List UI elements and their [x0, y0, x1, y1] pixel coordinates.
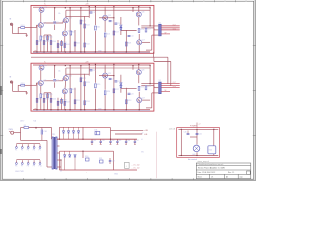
resistor R218 [126, 100, 132, 104]
transistor Q16 [136, 12, 144, 17]
diode D33 [77, 131, 79, 133]
svg-text:C38: C38 [112, 161, 115, 163]
connector pin P2 [21, 144, 23, 151]
resistor R31 [99, 158, 103, 163]
resistor R216 [104, 91, 110, 95]
svg-text:Date: 12.04.2004 19:52: Date: 12.04.2004 19:52 [198, 171, 216, 174]
junction dots 2 [36, 64, 150, 110]
resistor R110 [70, 31, 76, 35]
svg-text:R115: R115 [97, 26, 101, 28]
aux circuit enclosure box [177, 128, 220, 158]
title block logo box [247, 171, 251, 174]
resistor R202 [36, 98, 42, 102]
V+ aux rail net 2 [66, 67, 150, 69]
wire rows 1 [44, 16, 158, 42]
capacitor C14 [128, 35, 134, 37]
svg-text:C25: C25 [93, 70, 96, 72]
diode D11 [120, 25, 122, 27]
wire first stage link 1 [43, 21, 63, 24]
resistor R212 [80, 78, 86, 82]
resistor R118 [126, 42, 132, 46]
wire column c 1 [75, 7, 95, 52]
aux wire columns [181, 129, 214, 155]
wire diode stubs upper [64, 127, 79, 139]
svg-text:R209: R209 [66, 102, 70, 104]
svg-text:5: 5 [97, 1, 98, 3]
svg-text:P3: P3 [27, 150, 29, 152]
svg-text:R116: R116 [106, 33, 110, 35]
net labels 1 [34, 4, 103, 53]
capacitor C13 [115, 23, 121, 25]
svg-text:R204: R204 [45, 99, 49, 101]
diode D22 [120, 86, 122, 88]
wire ground bus between channels [31, 52, 168, 84]
svg-text:Q17: Q17 [142, 40, 145, 42]
resistor R205 [47, 94, 53, 98]
wire column a 2 [37, 70, 51, 110]
wire link between channels right side [154, 57, 171, 86]
ground bus 1 [33, 52, 150, 54]
connector SL2 pin header [16, 159, 40, 161]
resistor R213 [84, 82, 90, 86]
wire output stage 2 [139, 64, 150, 109]
svg-text:Q25: Q25 [108, 73, 111, 75]
svg-text:→ LS– 4Ω: → LS– 4Ω [131, 167, 140, 169]
connector SL1 pin header [16, 143, 40, 145]
svg-text:P7: P7 [21, 166, 23, 168]
capacitor C11 [53, 22, 59, 24]
resistor R109 [64, 44, 70, 48]
transistor Q13 [63, 18, 71, 23]
svg-text:+UB -UB: +UB -UB [169, 128, 175, 130]
svg-text:C32: C32 [93, 140, 96, 142]
svg-text:C11: C11 [56, 22, 59, 24]
svg-text:R119: R119 [147, 28, 151, 30]
input jack X11 [10, 19, 13, 26]
resistor R117 [113, 31, 119, 35]
svg-text:R112: R112 [82, 20, 86, 22]
svg-text:R212: R212 [82, 78, 86, 80]
V+ rail net 1 [33, 6, 150, 8]
V- rail net 1 [33, 51, 150, 53]
wire column b 1 [55, 8, 70, 52]
capacitor C22 [109, 78, 115, 80]
diode D12 [120, 28, 122, 30]
svg-text:C15: C15 [93, 12, 96, 14]
svg-text:R202: R202 [38, 99, 42, 101]
frame divider line [155, 132, 157, 179]
svg-text:R104: R104 [45, 41, 49, 43]
transistor Q24 [62, 89, 70, 94]
rectifier bridge wires upper [60, 127, 111, 139]
resistor R107 [57, 44, 63, 48]
svg-text:Q21: Q21 [43, 80, 46, 82]
frame margin mark left lower [0, 149, 2, 154]
resistor R102 [36, 41, 42, 45]
svg-text:R30: R30 [85, 156, 88, 158]
wire connector outputs 2 [161, 84, 180, 92]
secondary circuit lower wires [60, 151, 138, 170]
capacitor C21 [53, 80, 59, 82]
svg-text:Q16: Q16 [141, 12, 144, 14]
svg-text:11: 11 [224, 1, 226, 3]
wire negative rail out [115, 133, 142, 135]
svg-text:NF: NF [165, 32, 167, 34]
capacitor C15 [90, 12, 96, 14]
drawing frame [2, 1, 253, 179]
connector X12 [159, 22, 162, 36]
svg-text:C41: C41 [199, 133, 202, 135]
resistor R203 [40, 94, 46, 98]
svg-text:P10: P10 [39, 166, 42, 168]
resistor R217 [113, 89, 119, 93]
wire input to base 1 [25, 25, 38, 27]
resistor R220 [138, 86, 144, 90]
svg-text:P2: P2 [21, 150, 23, 152]
svg-text:C36: C36 [127, 140, 130, 142]
svg-text:Stereo Power Amplifier 2 x 60W: Stereo Power Amplifier 2 x 60W [198, 166, 225, 169]
aux top rail [178, 128, 218, 130]
resistor R103 [40, 36, 46, 40]
resistor R120 [138, 29, 144, 33]
svg-text:R102: R102 [38, 41, 42, 43]
resistor R211 [74, 100, 80, 104]
supply bus net [57, 138, 137, 140]
wire secondary taps [57, 139, 61, 167]
svg-text:R105: R105 [49, 36, 53, 38]
aux junction dots [181, 129, 215, 156]
wire connector outputs 1 [161, 26, 180, 34]
svg-text:R205: R205 [49, 94, 53, 96]
svg-text:amp: amp [240, 176, 243, 178]
aux labels [141, 126, 197, 161]
frame column ticks bottom [24, 178, 194, 180]
svg-text:R31: R31 [99, 158, 102, 160]
resistor R210 [70, 89, 76, 93]
capacitor C40 [184, 131, 190, 135]
wire output stage 1 [139, 7, 150, 52]
svg-text:Rev: 1.1: Rev: 1.1 [228, 172, 234, 174]
wire feedback return 1 [146, 35, 158, 50]
resistor R201 [21, 83, 25, 86]
wire aux box supply entry [197, 123, 201, 128]
ground [26, 93, 28, 95]
net flag labels 1 [165, 24, 177, 34]
resistor R112 [80, 20, 86, 24]
wire rows 2 [44, 74, 158, 100]
svg-text:R210: R210 [72, 89, 76, 91]
svg-text:F1: F1 [24, 125, 26, 127]
capacitor C30 mains [41, 128, 47, 141]
svg-text:R219: R219 [147, 86, 151, 88]
svg-text:R217: R217 [115, 89, 119, 91]
fuse F1 [24, 125, 29, 129]
svg-text:R106: R106 [52, 41, 56, 43]
svg-text:X2: X2 [159, 80, 161, 82]
svg-text:R220: R220 [140, 87, 144, 89]
title block text [198, 163, 243, 179]
connector pin P5 [39, 144, 41, 151]
capacitor C31 electrolytic [94, 129, 100, 134]
svg-text:Q22: Q22 [44, 65, 47, 67]
resistor R115 [95, 26, 101, 30]
transistor Q15 [103, 15, 111, 20]
filter capacitors row [91, 139, 136, 144]
svg-text:R109: R109 [66, 44, 70, 46]
capacitor C25 [90, 70, 96, 72]
svg-text:4: 4 [76, 1, 77, 3]
svg-text:POWER: POWER [190, 126, 197, 128]
connector pin P3 [27, 144, 29, 151]
V+ aux rail net 1 [66, 9, 150, 11]
diode D30 [62, 131, 64, 133]
resistor R104 [43, 41, 49, 45]
frame column ticks top [13, 0, 248, 2]
svg-text:R215: R215 [97, 84, 101, 86]
svg-text:fan control: fan control [188, 158, 197, 161]
svg-text:P9: P9 [33, 166, 35, 168]
svg-text:R206: R206 [52, 99, 56, 101]
wire first stage link 2 [43, 78, 63, 81]
aux bottom rail [178, 155, 218, 157]
svg-text:P5: P5 [39, 150, 41, 152]
svg-text:R101: R101 [21, 25, 25, 27]
svg-text:R213: R213 [86, 82, 90, 84]
svg-text:OUT: OUT [173, 24, 176, 26]
svg-text:→ LS+ 4Ω: → LS+ 4Ω [131, 164, 140, 166]
resistor R209 [64, 101, 70, 105]
relay K40 [208, 146, 216, 154]
svg-text:P4: P4 [33, 150, 35, 152]
sheet edge shading [0, 0, 256, 181]
svg-text:P1: P1 [15, 150, 17, 152]
svg-text:9: 9 [182, 1, 183, 3]
svg-text:P8: P8 [27, 166, 29, 168]
amplifier channel 2 enclosure box [31, 63, 154, 111]
junction dots psu [59, 139, 111, 161]
svg-text:R118: R118 [127, 42, 131, 44]
svg-text:C33: C33 [101, 140, 104, 142]
svg-text:C40: C40 [184, 132, 187, 134]
connector pin P7 [21, 160, 23, 167]
wire mains live [14, 128, 24, 133]
capacitor C24 [128, 93, 134, 95]
resistor R204 [43, 98, 49, 102]
resistor R30 [85, 156, 89, 161]
svg-text:R113: R113 [86, 24, 90, 26]
resistor R208 [61, 99, 67, 103]
connector pin P1 [15, 144, 17, 151]
svg-text:230V: 230V [9, 129, 14, 131]
mains plug X30 [9, 129, 14, 134]
connector pin P8 [27, 160, 29, 167]
resistor R215 [95, 84, 101, 88]
wire column c 2 [75, 64, 95, 109]
svg-text:Q26: Q26 [141, 69, 144, 71]
svg-text:230V~: 230V~ [20, 121, 25, 123]
transistor Q21 [38, 80, 46, 85]
svg-text:10k: 10k [58, 71, 61, 73]
svg-text:12: 12 [245, 1, 247, 3]
svg-text:C30: C30 [43, 131, 46, 133]
input jack X21 [10, 76, 13, 83]
svg-text:C35: C35 [118, 140, 121, 142]
svg-text:R216: R216 [106, 91, 110, 93]
svg-text:C14: C14 [131, 36, 134, 38]
svg-text:Q27: Q27 [142, 97, 145, 99]
svg-text:C24: C24 [131, 93, 134, 95]
net flag labels 2 [165, 82, 177, 92]
svg-text:R211: R211 [76, 100, 80, 102]
resistor R206 [50, 98, 56, 102]
transistor Q17 [137, 40, 145, 45]
svg-text:R218: R218 [127, 100, 131, 102]
frame margin mark left upper [0, 86, 2, 95]
svg-text:P6: P6 [15, 166, 17, 168]
svg-text:R114: R114 [86, 43, 90, 45]
capacitor C12 [109, 21, 115, 23]
svg-text:V+: V+ [44, 61, 46, 63]
svg-text:B: B [0, 67, 1, 69]
resistor R207 [57, 101, 63, 105]
resistor R219 [145, 86, 151, 90]
svg-text:Q12: Q12 [44, 7, 47, 9]
transistor Q11 [38, 22, 46, 27]
wire input loop 1 [13, 24, 27, 33]
transistor Q12 [39, 7, 47, 12]
svg-text:Q11: Q11 [43, 22, 46, 24]
svg-text:X1: X1 [159, 22, 161, 24]
wire fuse to transformer [29, 128, 52, 140]
connector pin P10 [39, 160, 42, 167]
transistor Q27 [137, 97, 145, 102]
wire column b 2 [55, 66, 70, 110]
V- rail net 2 [33, 109, 150, 111]
wire input loop 2 [13, 82, 27, 91]
svg-text:C22: C22 [112, 78, 115, 80]
svg-text:GND: GND [114, 174, 119, 176]
svg-text:R201: R201 [21, 83, 25, 85]
resistor R113 [84, 24, 90, 28]
wire column a 1 [37, 12, 51, 52]
diode D36 [74, 155, 76, 157]
resistor R101 [21, 25, 25, 28]
stray labels psu bottom [15, 171, 119, 176]
resistor R105 [47, 36, 53, 40]
svg-text:Q15: Q15 [108, 15, 111, 17]
svg-text:10k: 10k [58, 13, 61, 15]
resistor R106 [50, 41, 56, 45]
svg-text:OUT: OUT [173, 82, 176, 84]
connector X22 [159, 80, 162, 94]
amplifier channel 1 enclosure box [31, 5, 154, 53]
diode D32 [72, 131, 74, 133]
resistor R119 [145, 28, 151, 32]
svg-text:C34: C34 [111, 140, 114, 142]
capacitor C41 [196, 133, 202, 135]
transistor Q25 [103, 73, 111, 78]
junction dots 1 [36, 6, 150, 52]
wire mains neutral [21, 133, 52, 167]
transistor Q23 [63, 75, 71, 80]
svg-text:R110: R110 [72, 31, 76, 33]
rectifier B40 [193, 145, 200, 156]
svg-text:K40: K40 [209, 149, 212, 151]
transistor Q14 [62, 31, 70, 36]
net labels 2 [34, 61, 103, 110]
title block frame [196, 163, 251, 179]
V+ rail net 2 [33, 64, 150, 66]
svg-text:C12: C12 [112, 21, 115, 23]
connector pin P9 [33, 160, 35, 167]
svg-text:V+: V+ [44, 4, 46, 6]
wire positive rail out [111, 127, 144, 139]
wire input to base 2 [25, 83, 38, 85]
ground bus 2 [33, 110, 150, 112]
svg-text:R203: R203 [42, 94, 46, 96]
svg-text:C21: C21 [56, 80, 59, 82]
wire feedback return 2 [146, 93, 158, 108]
svg-text:1/1: 1/1 [211, 176, 213, 178]
diode D34 [64, 155, 66, 157]
wire X-cap taps [35, 128, 37, 130]
transistor Q26 [136, 69, 144, 74]
capacitor C38 [109, 158, 115, 164]
diode D31 [67, 131, 69, 133]
capacitor C23 [115, 81, 121, 83]
resistor R114 [84, 43, 90, 47]
ground input 2 [26, 91, 28, 92]
svg-text:NF: NF [165, 90, 167, 92]
svg-text:R117: R117 [115, 31, 119, 33]
svg-text:R103: R103 [42, 36, 46, 38]
resistor R111 [74, 42, 80, 46]
svg-text:R120: R120 [140, 29, 144, 31]
svg-text:10: 10 [203, 1, 205, 3]
connector pin P6 [15, 160, 17, 167]
filter cap labels [93, 140, 139, 142]
svg-text:R111: R111 [76, 42, 80, 44]
note box bottom [125, 162, 130, 168]
svg-text:GND PWR: GND PWR [15, 171, 24, 173]
svg-text:R214: R214 [86, 101, 90, 103]
ground input 1 [26, 34, 28, 35]
ground [26, 35, 28, 37]
transformer TR1 [52, 134, 58, 169]
frame row ticks right [253, 46, 256, 136]
svg-text:C31: C31 [94, 129, 97, 131]
svg-text:C37: C37 [136, 140, 139, 142]
resistor R116 [104, 33, 110, 37]
diode D35 [69, 155, 71, 157]
connector pin P4 [33, 144, 35, 151]
svg-text:B40: B40 [193, 154, 196, 156]
wire column d 2 [105, 64, 133, 109]
wire column d 1 [105, 7, 133, 52]
transistor Q22 [39, 65, 47, 70]
frame row ticks left [0, 21, 3, 159]
resistor R108 [61, 42, 67, 46]
resistor R214 [84, 101, 90, 105]
diode D21 [120, 83, 122, 85]
